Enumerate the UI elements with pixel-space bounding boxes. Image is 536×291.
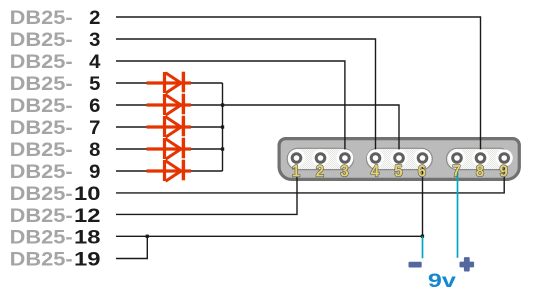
junction bus row 7 <box>221 125 224 128</box>
diode D3 <box>147 116 192 138</box>
9-pin terminal block U1 <box>279 139 519 180</box>
svg-text:DB25-: DB25- <box>10 30 73 51</box>
svg-text:DB25-: DB25- <box>10 184 73 205</box>
pin 5 <box>390 149 407 166</box>
svg-text:DB25-: DB25- <box>10 140 73 161</box>
wire DB25-8 to diode D4 anode <box>116 148 148 150</box>
label DB25-4 <box>10 52 101 73</box>
label DB25-5 <box>10 74 101 95</box>
wire diode D2 cathode to bus <box>191 104 223 106</box>
wire DB25-5 to diode D1 anode <box>116 82 148 84</box>
svg-text:3: 3 <box>89 30 100 51</box>
diode D1 <box>147 72 192 94</box>
wire DB25-19 joining DB25-18 <box>116 236 147 258</box>
svg-text:4: 4 <box>371 161 380 180</box>
svg-text:4: 4 <box>89 52 101 73</box>
pin 2 <box>312 149 329 166</box>
svg-text:7: 7 <box>452 161 460 180</box>
wire battery positive to pin 7 (cyan) <box>457 158 459 258</box>
svg-text:19: 19 <box>74 249 101 270</box>
svg-text:6: 6 <box>418 161 426 180</box>
terminal group 1 recess <box>287 148 353 169</box>
svg-text:8: 8 <box>89 140 100 161</box>
svg-text:DB25-: DB25- <box>10 74 73 95</box>
svg-text:DB25-: DB25- <box>10 118 73 139</box>
terminal group 3 recess <box>447 148 511 169</box>
svg-text:3: 3 <box>340 161 348 180</box>
svg-text:7: 7 <box>89 118 100 139</box>
wire bus to pin 5 <box>223 105 400 158</box>
svg-text:9: 9 <box>89 162 100 183</box>
pin 9 <box>496 149 513 166</box>
wire diode D3 cathode to bus <box>191 126 223 128</box>
wire junction to battery negative (cyan) <box>422 236 424 258</box>
diode output bus <box>222 83 224 171</box>
svg-text:DB25-: DB25- <box>10 162 73 183</box>
diode D5 <box>147 160 192 182</box>
svg-text:5: 5 <box>394 161 402 180</box>
battery positive terminal symbol <box>460 257 475 271</box>
wire diode D5 cathode to bus <box>191 170 223 172</box>
pin 7 <box>448 149 465 166</box>
pin 6 <box>414 149 431 166</box>
label DB25-18 <box>10 227 101 248</box>
wire DB25-6 to diode D2 anode <box>116 104 148 106</box>
terminal block pins and numbers <box>288 149 513 180</box>
label DB25-9 <box>10 162 101 183</box>
diode D2 <box>147 94 192 116</box>
svg-text:9: 9 <box>500 161 508 180</box>
svg-text:2: 2 <box>89 8 100 29</box>
pin 8 <box>472 149 489 166</box>
wire DB25-12 to pin 1 <box>116 158 297 214</box>
wire DB25-10 to pin 9 <box>116 158 504 193</box>
svg-text:18: 18 <box>74 227 101 248</box>
wire DB25-18 to pin 6 <box>116 158 423 236</box>
wire diode D4 cathode to bus <box>191 148 223 150</box>
wire DB25-2 to pin 8 <box>116 17 481 158</box>
svg-text:1: 1 <box>292 161 300 180</box>
svg-text:DB25-: DB25- <box>10 227 73 248</box>
label DB25-3 <box>10 30 101 51</box>
wire DB25-9 to diode D5 anode <box>116 170 148 172</box>
svg-text:DB25-: DB25- <box>10 52 73 73</box>
pin 1 <box>288 149 305 166</box>
label DB25-19 <box>10 249 101 270</box>
wire DB25-3 to pin 4 <box>116 39 376 158</box>
junction DB25-19 / DB25-18 <box>146 235 149 238</box>
label DB25-10 <box>10 184 101 205</box>
wire DB25-7 to diode D3 anode <box>116 126 148 128</box>
svg-text:2: 2 <box>316 161 324 180</box>
svg-text:12: 12 <box>74 206 101 227</box>
terminal group 2 recess <box>367 148 433 169</box>
svg-text:DB25-: DB25- <box>10 249 73 270</box>
svg-text:9v: 9v <box>428 271 457 291</box>
junction DB25-18 / battery negative <box>421 235 424 238</box>
svg-text:DB25-: DB25- <box>10 206 73 227</box>
svg-text:DB25-: DB25- <box>10 96 73 117</box>
svg-text:8: 8 <box>476 161 484 180</box>
svg-text:DB25-: DB25- <box>10 8 73 29</box>
wire DB25-4 to pin 3 <box>116 61 345 158</box>
battery negative terminal symbol <box>409 262 422 268</box>
label DB25-7 <box>10 118 101 139</box>
pin 3 <box>336 149 353 166</box>
terminal block body <box>279 139 519 180</box>
junction bus row 6 <box>221 103 224 106</box>
svg-text:5: 5 <box>89 74 101 95</box>
svg-text:6: 6 <box>89 96 100 117</box>
diode D4 <box>147 138 192 160</box>
label DB25-8 <box>10 140 101 161</box>
wire diode D1 cathode to bus <box>191 82 223 84</box>
label DB25-2 <box>10 8 101 29</box>
pin 4 <box>367 149 384 166</box>
label DB25-12 <box>10 206 101 227</box>
svg-text:10: 10 <box>74 184 101 205</box>
junction bus row 8 <box>221 147 224 150</box>
label DB25-6 <box>10 96 101 117</box>
